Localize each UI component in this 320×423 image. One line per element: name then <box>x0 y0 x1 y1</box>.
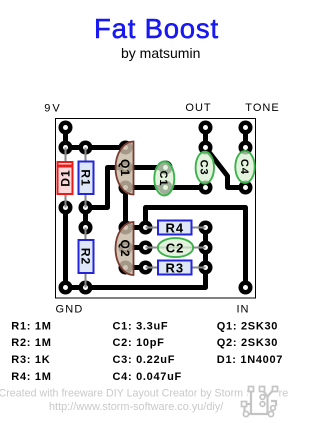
svg-text:C2: 10pF: C2: 10pF <box>113 337 165 349</box>
svg-text:Q2: Q2 <box>118 239 132 257</box>
wire R1 bottom elbow to Q1 pin2 <box>86 168 126 208</box>
wire Q2 pin3 to R3 left pad <box>126 265 146 270</box>
svg-text:Q1: Q1 <box>118 159 132 177</box>
pad C2 left <box>139 241 153 255</box>
svg-text:R1: R1 <box>79 169 93 186</box>
pad R3 left <box>139 261 153 275</box>
svg-text:C1: 3.3uF: C1: 3.3uF <box>113 320 169 332</box>
svg-text:Created with freeware DIY Layo: Created with freeware DIY Layout Creator… <box>0 387 288 399</box>
wire 9V pad to D1 top <box>63 128 68 148</box>
capacitor C3 <box>196 152 214 184</box>
pad 9V <box>59 121 73 135</box>
pad R3 right <box>199 261 213 275</box>
capacitor C1 <box>154 162 174 196</box>
pad Q1 pin3 <box>119 181 133 195</box>
pad C1 bottom <box>159 181 173 195</box>
resistor R3 <box>158 261 192 275</box>
resistor R1 <box>79 162 94 195</box>
wire Q2 pin2 to C2 left pad <box>126 245 146 250</box>
wire R1 bottom to R2 top <box>83 208 88 228</box>
lead R2 <box>85 228 87 288</box>
resistor R4 <box>158 221 192 235</box>
pad D1 bottom <box>59 201 73 215</box>
svg-text:OUT: OUT <box>185 102 211 114</box>
resistor R2 <box>79 240 94 273</box>
svg-text:GND: GND <box>56 304 84 316</box>
svg-text:C1: C1 <box>157 170 169 186</box>
svg-text:C2: C2 <box>166 240 185 255</box>
pad R1 bottom <box>79 201 93 215</box>
pad C4 top <box>239 141 253 155</box>
capacitor C2 <box>158 238 193 257</box>
wire Q1 pin2 to C1 top <box>126 165 166 170</box>
pad R4 right <box>199 221 213 235</box>
svg-text:9V: 9V <box>44 103 61 115</box>
lead R1 <box>85 148 87 208</box>
pad Q2 pin1 <box>119 221 133 235</box>
pad C1 top <box>159 161 173 175</box>
pad C2 right <box>199 241 213 255</box>
svg-text:D1: 1N4007: D1: 1N4007 <box>217 354 283 366</box>
pad Q1 pin2 <box>119 161 133 175</box>
transistor Q1 <box>116 142 134 195</box>
wire Q2 pin1 to R4 left pad <box>126 225 146 230</box>
pad R2 bottom <box>79 281 93 295</box>
svg-text:Q2: 2SK30: Q2: 2SK30 <box>217 337 278 349</box>
watermark logo <box>245 389 277 414</box>
diode D1 <box>58 162 73 194</box>
watermark logo backing <box>248 387 279 400</box>
svg-text:R1: 1M: R1: 1M <box>11 320 51 332</box>
wire D1 top to R1 top <box>66 145 86 150</box>
svg-text:R4: 1M: R4: 1M <box>11 371 51 383</box>
svg-text:by matsumin: by matsumin <box>121 45 200 61</box>
wire GND bus to R3 right pad <box>66 268 206 288</box>
svg-text:IN: IN <box>237 304 250 316</box>
svg-text:TONE: TONE <box>245 102 279 114</box>
lead C2 <box>146 247 206 249</box>
pad R4 left <box>139 221 153 235</box>
wire OUT pad to C3 top <box>203 128 208 148</box>
wire TONE pad to C4 top <box>243 128 248 148</box>
transistor Q2 <box>116 222 134 275</box>
pad C4 bottom <box>239 181 253 195</box>
svg-text:R2: R2 <box>79 248 93 265</box>
wire R1 top to Q1 pin1 <box>86 145 126 150</box>
svg-text:R4: R4 <box>165 220 184 235</box>
wire D1 bottom to GND pad <box>63 208 68 288</box>
svg-text:C4: 0.047uF: C4: 0.047uF <box>113 371 182 383</box>
pad R2 top <box>79 221 93 235</box>
pad C3 bottom <box>199 181 213 195</box>
wire Q1 pin3 to Q2 pin1 <box>123 188 128 228</box>
svg-text:Fat Boost: Fat Boost <box>94 13 219 44</box>
wire R4 left pad loop to IN pad <box>146 208 246 288</box>
lead D1 <box>65 148 67 208</box>
pad Q2 pin2 <box>119 241 133 255</box>
pad R1 top <box>79 141 93 155</box>
capacitor C4 <box>235 151 254 183</box>
pad GND <box>59 281 73 295</box>
pad TONE <box>239 121 253 135</box>
pad IN <box>239 281 253 295</box>
wire Q1 pin3 to C1 bottom to C3 bottom <box>126 185 206 190</box>
svg-text:Q1: 2SK30: Q1: 2SK30 <box>217 320 278 332</box>
svg-text:R3: R3 <box>165 260 184 275</box>
pad C3 top <box>199 141 213 155</box>
board outline <box>56 119 256 299</box>
pad Q2 pin3 <box>119 261 133 275</box>
svg-text:R2: 1M: R2: 1M <box>11 337 51 349</box>
wire C3 top to C4 bottom <box>206 148 246 188</box>
svg-text:C3: C3 <box>198 160 210 176</box>
svg-text:http://www.storm-software.co.y: http://www.storm-software.co.yu/diy/ <box>49 401 224 413</box>
pad Q1 pin1 <box>119 141 133 155</box>
svg-text:C4: C4 <box>238 159 250 175</box>
svg-text:C3: 0.22uF: C3: 0.22uF <box>113 354 176 366</box>
svg-text:R3: 1K: R3: 1K <box>11 354 50 366</box>
wire R4 right pad to R3 right pad <box>203 228 208 268</box>
parts list column 1 <box>11 320 283 382</box>
svg-text:D1: D1 <box>58 169 72 186</box>
lead R4 <box>146 227 206 229</box>
pad OUT <box>199 121 213 135</box>
pad D1 top <box>59 141 73 155</box>
lead R3 <box>146 267 206 269</box>
